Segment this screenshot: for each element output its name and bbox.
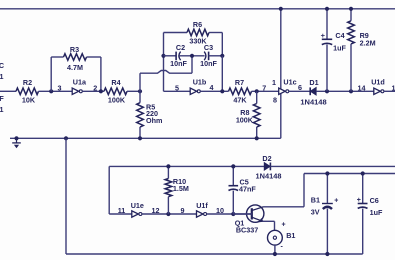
svg-text:1: 1	[0, 105, 4, 114]
junction dot ground rail / R8	[255, 136, 259, 140]
svg-text:BC337: BC337	[236, 225, 258, 234]
svg-text:1: 1	[392, 83, 395, 92]
svg-text:8: 8	[273, 96, 277, 105]
inverter U1f	[196, 201, 208, 217]
svg-text:U1f: U1f	[196, 201, 208, 210]
wire R6 loop right vertical	[221, 33, 223, 56]
node F junction dot (C3 right / R6 right)	[220, 54, 224, 58]
svg-text:D1: D1	[309, 78, 318, 87]
wire R7 to U1c input	[252, 90, 279, 92]
svg-text:3V: 3V	[311, 208, 320, 217]
wire R5 bottom lead	[139, 127, 141, 138]
wire input segment from left edge	[0, 90, 16, 92]
wire emitter down to buzzer	[274, 221, 276, 230]
svg-text:47nF: 47nF	[239, 185, 256, 194]
svg-text:U1b: U1b	[193, 78, 207, 87]
inverter U1e	[131, 201, 144, 217]
wire C2 to midpoint node	[180, 55, 205, 57]
wire U1d output to right edge	[384, 90, 395, 92]
resistor R4	[104, 78, 127, 104]
wire R9 bottom lead	[350, 44, 352, 91]
junction dot oscillator rail / C5	[231, 164, 235, 168]
wire R8 bottom lead	[256, 127, 258, 138]
wire left vertical to bottom rail	[65, 138, 67, 254]
svg-text:14: 14	[358, 83, 366, 92]
wire U1e input segment	[109, 213, 132, 215]
inverter U1d	[371, 78, 385, 95]
svg-text:1: 1	[0, 72, 4, 81]
capacitor C6	[357, 174, 383, 255]
inverter U1c	[279, 78, 297, 95]
svg-text:R3: R3	[70, 45, 79, 54]
junction dot bottom rail / buzzer	[273, 252, 277, 256]
svg-text:R2: R2	[23, 78, 32, 87]
svg-text:F: F	[0, 94, 4, 103]
node D junction dot (C2 left / R6 left)	[161, 54, 165, 58]
inverter U1b	[190, 78, 207, 95]
junction dot bottom rail / B1	[325, 252, 329, 256]
junction dot oscillator rail / R10	[166, 164, 170, 168]
wire R6 loop left vertical	[163, 33, 165, 56]
svg-text:11: 11	[118, 206, 126, 215]
junction dot battery rail / C6	[361, 171, 365, 175]
svg-text:C4: C4	[335, 31, 344, 40]
svg-text:100K: 100K	[108, 95, 126, 104]
svg-text:9: 9	[181, 206, 185, 215]
node G junction dot (U1b out / R6-C3 right)	[220, 89, 224, 93]
wire ground rail	[10, 137, 281, 139]
resistor R6	[187, 20, 209, 46]
capacitor C5	[229, 166, 257, 214]
diode D1	[300, 78, 326, 106]
wire R4 to node C	[127, 90, 140, 92]
svg-text:47K: 47K	[233, 95, 247, 104]
wire U1f output to Q1 base	[207, 213, 252, 215]
wire U1a output to R4	[82, 90, 104, 92]
wire R10 bottom lead	[167, 197, 169, 214]
svg-text:4: 4	[210, 83, 214, 92]
junction dot ground symbol	[14, 136, 18, 140]
node E junction dot (C2-C3 midpoint)	[190, 54, 194, 58]
wire node C up-tap vertical	[139, 73, 141, 91]
wire C2 left lead	[164, 55, 177, 57]
svg-text:U1a: U1a	[73, 78, 87, 87]
node K junction dot (R10 bottom)	[166, 212, 170, 216]
resistor R3	[64, 45, 87, 72]
svg-text:C: C	[0, 61, 4, 70]
wire R3 loop left vertical	[50, 57, 52, 91]
svg-text:C3: C3	[204, 43, 213, 52]
node J junction dot (R9 bottom)	[349, 89, 353, 93]
wire R3 loop right vertical	[100, 57, 102, 91]
svg-text:B1: B1	[311, 196, 320, 205]
svg-text:1N4148: 1N4148	[300, 97, 326, 106]
wire R9 top lead	[350, 9, 352, 21]
resistor R7	[229, 78, 252, 104]
svg-text:Ohm: Ohm	[146, 116, 162, 125]
svg-text:D2: D2	[262, 154, 271, 163]
node H junction dot (R7 / R8 / U1c in)	[255, 89, 259, 93]
svg-text:2.2M: 2.2M	[360, 39, 376, 48]
svg-text:+: +	[281, 222, 285, 229]
resistor R10	[165, 177, 189, 197]
wire R3 loop right top segment	[87, 56, 101, 58]
svg-text:1.5M: 1.5M	[173, 184, 189, 193]
svg-text:+: +	[321, 31, 326, 40]
node I junction dot (D1 / C4)	[325, 89, 329, 93]
svg-text:+: +	[334, 197, 338, 204]
wire R5 top lead	[139, 91, 141, 102]
resistor R9	[348, 21, 376, 48]
wire battery positive rail	[304, 173, 395, 175]
wire vertical rail through U1c (top rail to ground rail)	[280, 9, 282, 139]
wire bottom ground rail	[66, 253, 363, 255]
ground symbol	[12, 138, 21, 148]
wire D2 cathode to right edge	[270, 165, 395, 167]
svg-text:5: 5	[175, 83, 179, 92]
wire U1e output to U1f input	[142, 213, 197, 215]
wire U1c output to D1	[289, 90, 311, 92]
wire R6 loop top right segment	[209, 32, 222, 34]
wire battery rail drop to collector	[303, 174, 305, 207]
capacitor C2	[170, 43, 187, 68]
junction dot top rail at R9	[349, 7, 353, 11]
svg-text:U1d: U1d	[371, 78, 385, 87]
wire R2 to node A	[39, 90, 73, 92]
svg-text:100K: 100K	[236, 116, 254, 125]
svg-text:R6: R6	[193, 20, 202, 29]
svg-text:C2: C2	[176, 43, 185, 52]
svg-text:1: 1	[272, 78, 276, 87]
junction dot top rail at C4	[325, 7, 329, 11]
wire R10 top lead	[167, 166, 169, 178]
battery B1 3V	[311, 174, 339, 255]
svg-text:10nF: 10nF	[170, 59, 187, 68]
svg-text:+: +	[357, 197, 361, 204]
wire U1b input segment	[164, 90, 191, 92]
wire buzzer to bottom rail	[274, 245, 276, 254]
capacitor C3	[200, 43, 217, 68]
buzzer B1	[268, 222, 296, 251]
junction dot ground rail / left drop	[64, 136, 68, 140]
wire U1b output to R7	[200, 90, 228, 92]
svg-text:7: 7	[262, 83, 266, 92]
wire tap horizontal with crossover hump	[140, 71, 192, 74]
junction dot battery rail / B1	[325, 171, 329, 175]
svg-text:10K: 10K	[22, 95, 36, 104]
svg-text:1uF: 1uF	[333, 43, 346, 52]
svg-text:1uF: 1uF	[370, 208, 383, 217]
wire R3 loop left top segment	[51, 56, 63, 58]
junction dot ground rail / R5	[138, 136, 142, 140]
svg-text:R4: R4	[111, 78, 120, 87]
wire R8 top lead	[256, 91, 258, 103]
wire oscillator rail left segment	[109, 165, 264, 167]
wire R6 loop top left segment	[164, 32, 188, 34]
svg-text:10nF: 10nF	[200, 59, 217, 68]
svg-text:4.7M: 4.7M	[67, 63, 83, 72]
wire C3 right lead	[209, 55, 223, 57]
svg-text:U1c: U1c	[283, 78, 296, 87]
svg-text:B1: B1	[286, 231, 295, 240]
diode D2	[256, 154, 282, 181]
resistor R5	[137, 103, 163, 128]
inverter U1a	[72, 78, 87, 95]
resistor R2	[16, 78, 38, 104]
node B junction dot (U1a out / R3 right)	[99, 89, 103, 93]
junction dot top rail at x281	[279, 7, 283, 11]
svg-text:3: 3	[58, 83, 62, 92]
wire top supply rail	[0, 8, 395, 10]
svg-text:1N4148: 1N4148	[256, 172, 282, 181]
node L junction dot (C5 bottom / Q1 base)	[231, 212, 235, 216]
node A junction dot (R3 left / U1a input)	[49, 89, 53, 93]
wire collector horizontal	[264, 206, 305, 208]
svg-text:U1e: U1e	[131, 201, 144, 210]
wire cap row left node down to U1b input	[163, 56, 165, 92]
wire Q1 base lead	[233, 213, 252, 215]
svg-text:R7: R7	[235, 78, 244, 87]
transistor Q1	[235, 205, 264, 234]
node C junction dot (R4 / R5 / C2-C3 tap)	[138, 89, 142, 93]
wire node F down to U1b output row	[221, 56, 223, 92]
capacitor C4	[321, 9, 347, 92]
wire oscillator loop left vertical	[108, 166, 110, 214]
wire D1 to U1d input	[316, 90, 374, 92]
wire emitter horizontal	[263, 220, 275, 222]
wire tap vertical to C2-C3 midpoint	[191, 56, 193, 73]
resistor R8	[236, 104, 260, 128]
svg-text:C6: C6	[370, 196, 379, 205]
